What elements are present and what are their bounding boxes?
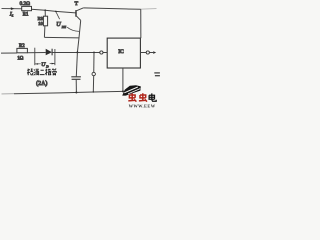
junction node at emitter and C1 bbox=[76, 51, 78, 53]
wire bottom main left bbox=[1, 52, 17, 54]
wire U_BE leader lower bbox=[67, 27, 79, 31]
capacitor C1 bottom lead bbox=[75, 79, 77, 92]
resistor R3 bbox=[43, 16, 47, 26]
logo black char dian bbox=[149, 93, 156, 101]
wire output stub bbox=[149, 52, 153, 54]
terminal circle mid branch bbox=[92, 72, 95, 75]
capacitor C1 plates bbox=[71, 76, 81, 78]
output arrowhead bbox=[153, 51, 156, 54]
junction node feedback branch bbox=[93, 52, 95, 54]
ground rail bbox=[14, 91, 136, 94]
capacitor C2 right edge plates bbox=[154, 72, 160, 74]
wire U_BE leader upper bbox=[56, 12, 59, 19]
transistor T emitter lead bbox=[77, 16, 81, 20]
wire corner drop to IC bbox=[140, 9, 142, 38]
logo red char chong 1 bbox=[128, 93, 136, 101]
annotation freewheeling diode text (xu liu er ji guan) bbox=[27, 69, 56, 76]
svg-text:U: U bbox=[56, 21, 61, 28]
junction node branch to rail bbox=[93, 91, 94, 92]
char guan bbox=[52, 69, 56, 76]
wire R3 bottom drop bbox=[43, 26, 46, 38]
label U_D dimension right arrow bbox=[50, 63, 55, 65]
label U_D extension line left bbox=[34, 48, 36, 65]
resistor R1 bbox=[22, 6, 32, 10]
svg-text:1Ω: 1Ω bbox=[17, 57, 23, 62]
svg-text:0.2Ω: 0.2Ω bbox=[20, 1, 30, 7]
svg-text:(2A): (2A) bbox=[36, 80, 47, 87]
IC U1 box bbox=[107, 38, 140, 68]
wire top input left segment bbox=[2, 8, 22, 10]
label U_D extension line right bbox=[54, 49, 56, 65]
wire diode to IC input bbox=[52, 51, 107, 53]
diode D freewheeling bbox=[46, 49, 52, 56]
node U_BE leader dot bbox=[55, 11, 57, 13]
junction node C1 to rail bbox=[75, 92, 77, 94]
transistor T collector lead bbox=[77, 8, 84, 11]
svg-text:T: T bbox=[75, 1, 79, 7]
node junction R3 tap bbox=[44, 9, 46, 11]
resistor R2 bbox=[17, 48, 28, 52]
svg-text:R1: R1 bbox=[23, 12, 29, 17]
transistor T base bar bbox=[75, 10, 76, 17]
current arrow I1 bbox=[11, 7, 15, 10]
svg-text:WWW.EEW: WWW.EEW bbox=[129, 104, 156, 109]
logo red char chong 2 bbox=[139, 93, 147, 101]
diode D cathode bar bbox=[51, 49, 53, 56]
ground rail faint left bbox=[2, 93, 15, 95]
wire faint rail continuation bbox=[141, 8, 157, 11]
wire collector rail to corner bbox=[83, 8, 141, 9]
wire feedback branch lower bbox=[92, 76, 94, 92]
logo black swoosh bbox=[122, 85, 141, 95]
wire R3 lower horizontal bbox=[44, 36, 79, 38]
char ji bbox=[45, 69, 51, 76]
wire top from R1 to transistor base bbox=[31, 9, 75, 13]
wire IC output right bbox=[140, 52, 146, 54]
wire feedback branch upper bbox=[93, 52, 95, 72]
terminal circle IC input bbox=[100, 51, 103, 54]
label U_D dimension left arrow bbox=[35, 63, 41, 65]
svg-text:R2: R2 bbox=[19, 44, 25, 49]
capacitor C1 top lead bbox=[76, 52, 77, 76]
wire IC bottom to rail bbox=[122, 68, 124, 91]
svg-text:10: 10 bbox=[38, 21, 43, 26]
char liu bbox=[34, 69, 39, 75]
svg-text:IC: IC bbox=[118, 49, 124, 55]
wire R3 top bbox=[44, 10, 46, 16]
terminal circle IC output bbox=[146, 51, 149, 54]
char er bbox=[40, 70, 45, 74]
wire R2 to diode bbox=[27, 52, 45, 54]
junction node IC to rail bbox=[122, 90, 124, 92]
wire emitter vertical down bbox=[77, 20, 80, 52]
char xu bbox=[27, 69, 33, 76]
